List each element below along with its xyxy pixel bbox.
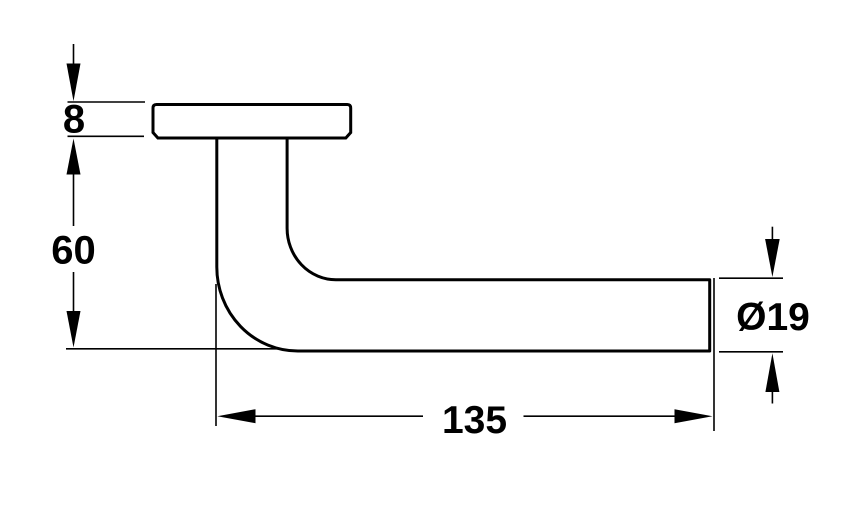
dimension 60: down arrowhead <box>67 311 81 348</box>
dimension Ø19: bottom extension line <box>719 351 783 353</box>
dimension Ø19: upper leader line <box>771 227 773 241</box>
lever handle outline <box>217 138 710 351</box>
svg-text:135: 135 <box>442 399 507 442</box>
dimension Ø19: up arrowhead <box>765 353 779 392</box>
dimension 135: left dimension line <box>255 415 423 417</box>
dimension 60: bottom extension line <box>66 348 281 350</box>
dimension 135: right arrowhead <box>675 409 713 423</box>
rose plate (side view) <box>153 105 351 139</box>
dimension Ø19: top extension line <box>719 277 783 279</box>
dimension 135: left arrowhead <box>217 409 255 423</box>
dimension 8: top extension line <box>68 101 146 103</box>
svg-text:8: 8 <box>63 98 85 142</box>
svg-text:Ø19: Ø19 <box>736 296 810 339</box>
dimension 60: upper leader line <box>73 174 75 226</box>
dimension 60: up arrowhead <box>67 139 81 175</box>
dimension Ø19: lower leader line <box>771 391 773 404</box>
dimension 135: left extension line <box>215 284 217 426</box>
dimension 8: bottom extension line <box>68 135 145 137</box>
dimension 60: lower leader line <box>73 272 75 313</box>
dimension Ø19: down arrowhead <box>765 239 780 277</box>
dimension 8: down arrowhead <box>67 64 81 102</box>
dimension 135: right extension line <box>713 278 715 431</box>
dimension 8: upper leader line <box>73 44 75 65</box>
svg-text:60: 60 <box>51 229 96 273</box>
dimension 135: right dimension line <box>524 415 676 417</box>
